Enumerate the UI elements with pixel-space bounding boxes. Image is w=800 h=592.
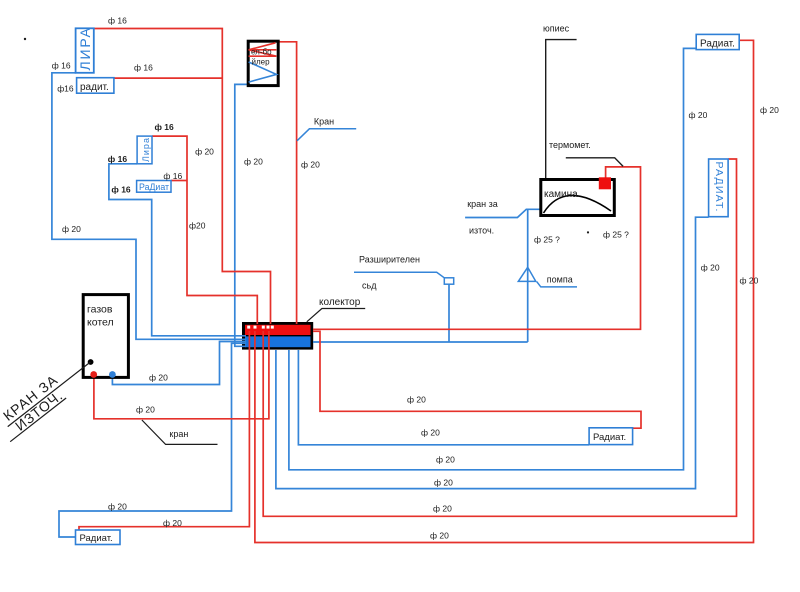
wire R4 red feed РаДиат2 (171, 180, 187, 182)
wire B7 blue manifold to pump row (313, 341, 528, 343)
svg-text:сьд: сьд (362, 281, 377, 291)
wire R1 red feed ЛИРА loop (94, 29, 271, 325)
svg-text:ф 20: ф 20 (434, 477, 453, 487)
svg-text:Радиат.: Радиат. (80, 533, 113, 544)
svg-text:ф20: ф20 (189, 221, 206, 231)
fireplace dome (544, 195, 612, 213)
wire R5 red feed ел-бойлер (277, 42, 297, 324)
svg-text:ф 16: ф 16 (108, 154, 128, 164)
svg-text:ф 16: ф 16 (155, 122, 175, 132)
svg-text:ф 20: ф 20 (195, 146, 214, 156)
svg-text:Радиат.: Радиат. (700, 38, 735, 49)
svg-text:ф 20: ф 20 (244, 157, 263, 167)
svg-text:ел-бо: ел-бо (251, 48, 272, 57)
wire B10 blue РАДИАТ vertical radiator return (276, 217, 709, 488)
svg-text:ф 16: ф 16 (163, 171, 182, 181)
wire R2 red feed радит. (114, 77, 222, 79)
svg-text:ф 25 ?: ф 25 ? (603, 230, 629, 240)
svg-text:йлер: йлер (252, 58, 271, 67)
svg-text:ф 20: ф 20 (421, 427, 440, 437)
svg-text:ф 20: ф 20 (62, 224, 81, 234)
radiator РаДиат (137, 181, 171, 193)
leader line КРАН ЗА ИЗТОЧ. (8, 362, 91, 427)
svg-text:РАДИАТ.: РАДИАТ. (713, 162, 725, 213)
pump помпа (triangle) (518, 267, 536, 281)
boiler drain node (black dot) (88, 359, 94, 365)
svg-text:ф 20: ф 20 (436, 454, 455, 464)
manifold valve dots (247, 326, 250, 329)
boiler blue port (109, 371, 116, 378)
boiler ел-бойлер (248, 41, 278, 85)
heater element (red zigzag) (249, 43, 277, 56)
svg-text:ф 20: ф 20 (740, 276, 759, 286)
svg-text:ф 20: ф 20 (701, 263, 720, 273)
node dot near ф25 (587, 231, 589, 233)
svg-text:ф 20: ф 20 (430, 530, 449, 540)
node stray dot top-left (24, 38, 26, 40)
svg-text:ф 20: ф 20 (301, 160, 320, 170)
fireplace камина (541, 180, 615, 216)
wire R10 red boiler to manifold (94, 331, 269, 419)
boiler газов котел (83, 295, 128, 378)
svg-text:кран за: кран за (467, 199, 498, 209)
svg-text:ф 20: ф 20 (433, 503, 452, 513)
svg-text:Лира: Лира (141, 137, 151, 162)
wire B9 blue top-right radiator return (289, 48, 696, 469)
svg-text:котел: котел (87, 317, 114, 329)
svg-text:ф16: ф16 (57, 83, 74, 93)
svg-text:ф 16: ф 16 (111, 184, 131, 194)
svg-text:ф 20: ф 20 (108, 501, 127, 511)
svg-text:РаДиат: РаДиат (139, 182, 169, 192)
svg-text:източ.: източ. (469, 225, 494, 235)
coil (blue zigzag) (249, 62, 277, 82)
label ИЗТОЧ. (rotated, underlined) (1, 386, 67, 442)
wire R7 red feed top-right radiator (255, 40, 754, 542)
manifold колектор body (242, 322, 313, 350)
wire R11 red feed bottom-left radiator (79, 331, 249, 531)
svg-text:ЛИРА: ЛИРА (77, 26, 93, 70)
svg-text:ф 20: ф 20 (689, 110, 708, 120)
wire R6 red manifold to камина (313, 167, 641, 329)
wire B13 blue bottom-left radiator return (59, 343, 246, 537)
radiator радит. (77, 78, 114, 94)
svg-text:Радиат.: Радиат. (593, 432, 626, 443)
svg-text:ф 20: ф 20 (136, 404, 155, 414)
svg-text:газов: газов (87, 304, 113, 316)
svg-text:колектор: колектор (319, 297, 361, 308)
wire B11 blue bottom-right radiator return (298, 350, 589, 445)
wire B8 expansion vessel drop (448, 284, 450, 342)
wire B5b pump vertical (527, 209, 529, 342)
radiator РАДИАТ. (vertical) (709, 159, 729, 217)
svg-text:термомет.: термомет. (549, 140, 591, 150)
svg-text:Разширителен: Разширителен (359, 255, 420, 265)
wire B1 blue return ЛИРА loop (52, 73, 246, 340)
svg-text:Кран: Кран (314, 117, 334, 127)
svg-text:помпа: помпа (547, 275, 573, 285)
svg-text:ф 20: ф 20 (760, 105, 779, 115)
svg-text:ф 20: ф 20 (149, 372, 168, 382)
thermometer sensor (red square) (599, 177, 611, 189)
svg-text:ф 16: ф 16 (108, 16, 127, 26)
radiator Лира (small towel rail) (137, 136, 152, 164)
svg-text:ф 20: ф 20 (407, 395, 426, 405)
label КРАН ЗА (rotated) (0, 371, 61, 423)
svg-text:ф 25 ?: ф 25 ? (534, 235, 560, 245)
svg-text:ф 16: ф 16 (52, 61, 71, 71)
boiler red port (90, 371, 97, 378)
radiator ЛИРА (towel rail) (76, 28, 94, 73)
wire B2 blue return Лира/РаДиат loop (109, 164, 246, 336)
wire B3 blue return ел-бойлер (235, 84, 249, 346)
radiator Радиат. top-right (696, 34, 739, 49)
svg-text:камина: камина (544, 189, 578, 200)
svg-text:радит.: радит. (80, 82, 109, 93)
radiator Радиат. bottom-right (589, 428, 633, 445)
radiator Радиат. bottom-left (76, 530, 121, 545)
wire R3 red feed Лира2 (152, 136, 257, 324)
svg-text:кран: кран (169, 429, 188, 439)
wire R9 red feed bottom-right radiator (313, 331, 641, 428)
svg-text:ф 20: ф 20 (163, 518, 182, 528)
svg-text:юпиес: юпиес (543, 24, 570, 34)
wire B12 blue boiler to manifold (112, 342, 246, 385)
wire R8 red feed РАДИАТ vertical radiator (263, 159, 736, 516)
svg-text:ф 16: ф 16 (134, 63, 153, 73)
wire B5 кран за източ. line and pump column (465, 209, 541, 217)
